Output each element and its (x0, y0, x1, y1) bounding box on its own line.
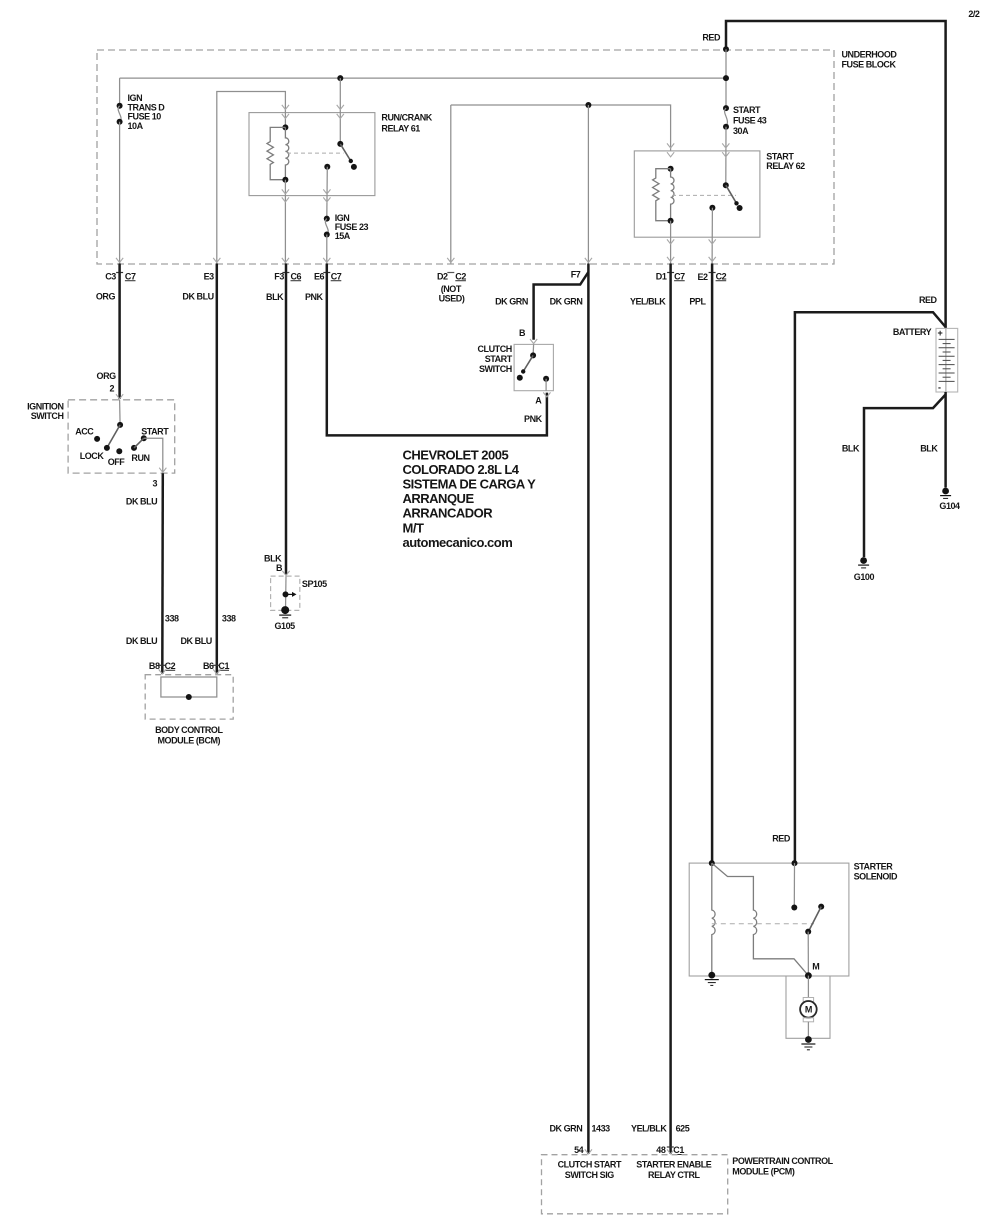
switch S1 ignition switch dashed box (68, 400, 175, 473)
svg-text:48: 48 (656, 1145, 666, 1155)
resistor relay61 (267, 127, 285, 179)
label fuse 43 (733, 105, 767, 136)
svg-text:RED: RED (772, 834, 791, 844)
wire DK BLU E3 to BCM (216, 264, 219, 675)
svg-text:BLK: BLK (842, 444, 860, 454)
svg-text:C6: C6 (291, 271, 302, 281)
svg-text:G104: G104 (939, 501, 960, 511)
solenoid coil 2 (pull-in) feed (712, 863, 809, 976)
wire D2 inside block (450, 105, 452, 264)
svg-text:3: 3 (153, 478, 158, 488)
battery BATTERY (936, 328, 958, 393)
svg-text:BLK: BLK (266, 292, 284, 302)
wire inside block from RED node to fuse 43 (725, 49, 727, 108)
underhood fuse block dashed box (97, 50, 834, 264)
svg-text:E3: E3 (204, 271, 215, 281)
relay61 switch pin top wire (339, 78, 341, 144)
label YEL/BLK 625 (631, 1124, 690, 1134)
wire BLK F3/C6 to SP105 (285, 264, 288, 575)
node relay62 coil bottom (668, 218, 674, 224)
node bus to fuse43 wire (723, 75, 729, 81)
wire main bus inside fuse block (120, 77, 726, 79)
svg-text:D1: D1 (656, 271, 667, 281)
wire DK GRN F7 to PCM (587, 264, 590, 1155)
svg-text:G105: G105 (274, 621, 295, 631)
svg-text:PNK: PNK (305, 292, 324, 302)
coil relay62 (671, 169, 674, 221)
svg-text:START: START (733, 105, 761, 115)
node motor ground (805, 1036, 812, 1043)
svg-text:CHEVROLET 2005: CHEVROLET 2005 (403, 447, 509, 462)
svg-text:ARRANQUE: ARRANQUE (403, 491, 475, 506)
svg-text:2: 2 (110, 384, 115, 394)
label fuse 23 (335, 213, 369, 241)
ground solenoid case (705, 980, 719, 986)
svg-text:YEL/BLK: YEL/BLK (630, 297, 666, 307)
svg-text:MODULE (PCM): MODULE (PCM) (732, 1166, 795, 1176)
label E2 C2 (697, 271, 726, 282)
wire DK GRN F7 branch to clutch switch B (534, 272, 589, 340)
node bus to relay61 switch (337, 75, 343, 81)
wire F7 inside block (587, 105, 589, 264)
motor housing box (786, 976, 830, 1038)
wire ORG C3/C7 to ignition switch (118, 264, 121, 400)
svg-text:C2: C2 (455, 271, 466, 281)
svg-text:C7: C7 (125, 271, 136, 281)
relay62 switch pin chevrons (722, 143, 729, 148)
svg-text:SWITCH SIG: SWITCH SIG (565, 1170, 614, 1180)
svg-text:FUSE BLOCK: FUSE BLOCK (842, 60, 897, 70)
svg-text:M: M (805, 1005, 812, 1015)
wire PPL E2/C2 to solenoid (711, 264, 714, 863)
svg-text:C3: C3 (105, 271, 116, 281)
svg-text:A: A (535, 396, 542, 406)
switch relay61 (324, 141, 357, 170)
svg-text:C7: C7 (674, 271, 685, 281)
svg-text:IGNITION: IGNITION (27, 401, 63, 411)
fuse F43 START (723, 105, 729, 185)
svg-text:DK BLU: DK BLU (126, 636, 157, 646)
svg-text:SWITCH: SWITCH (31, 411, 64, 421)
svg-text:PNK: PNK (524, 414, 543, 424)
svg-text:DK GRN: DK GRN (495, 297, 528, 307)
svg-text:RED: RED (702, 33, 721, 43)
svg-text:B6: B6 (203, 661, 214, 671)
label D1 C7 (656, 271, 685, 281)
wire RED inside solenoid (793, 863, 795, 907)
chevrons at fuse block bottom edge (116, 258, 123, 263)
node PPL entry (709, 860, 715, 866)
label BLK / B (264, 553, 283, 573)
wire BLK battery negative to G104 (944, 392, 947, 488)
relay61 coil pin top wire (284, 105, 286, 127)
svg-text:-: - (938, 383, 941, 393)
svg-text:D2: D2 (437, 271, 448, 281)
svg-text:(NOT: (NOT (441, 284, 462, 294)
node relay61 coil bottom (282, 177, 288, 183)
ground starter motor (801, 1044, 815, 1050)
wire RED battery to solenoid (795, 312, 946, 862)
svg-text:B: B (276, 563, 283, 573)
svg-text:338: 338 (222, 614, 236, 624)
label STARTER ENABLE RELAY CTRL (636, 1159, 711, 1180)
svg-text:automecanico.com: automecanico.com (403, 535, 513, 550)
svg-text:B8: B8 (149, 661, 160, 671)
svg-text:1433: 1433 (592, 1124, 611, 1134)
svg-text:RUN/CRANK: RUN/CRANK (381, 113, 432, 123)
svg-text:DK BLU: DK BLU (181, 636, 212, 646)
svg-text:START: START (766, 151, 794, 161)
svg-text:DK BLU: DK BLU (182, 292, 213, 302)
fuse F10 IGN TRANS D (117, 78, 123, 263)
resistor relay62 (653, 169, 671, 221)
label STARTER SOLENOID (854, 862, 898, 882)
svg-text:FUSE 43: FUSE 43 (733, 115, 767, 125)
wire sub-bus to relay62 coil (451, 105, 671, 151)
relay61 linkage dashed (287, 152, 344, 154)
svg-text:RELAY 62: RELAY 62 (766, 161, 805, 171)
svg-text:+: + (938, 328, 943, 338)
wire BLK battery negative to G100 (864, 395, 946, 558)
clutch switch internals (517, 344, 549, 390)
svg-text:F7: F7 (571, 270, 581, 280)
svg-text:STARTER ENABLE: STARTER ENABLE (636, 1159, 711, 1169)
wire relay61 NO contact down to fuse 23 (326, 167, 329, 219)
node relay62 coil top (668, 166, 674, 172)
svg-text:BATTERY: BATTERY (893, 327, 932, 337)
node junction at fuse block edge (723, 46, 729, 52)
svg-text:G100: G100 (854, 572, 875, 582)
svg-text:RELAY 61: RELAY 61 (381, 123, 420, 133)
svg-text:DK BLU: DK BLU (126, 497, 157, 507)
svg-text:54: 54 (574, 1145, 584, 1155)
solenoid linkage dashed (712, 923, 814, 925)
svg-text:C7: C7 (331, 271, 342, 281)
svg-text:SOLENOID: SOLENOID (854, 871, 898, 881)
svg-text:B: B (519, 328, 526, 338)
svg-text:START: START (141, 427, 169, 437)
module PCM dashed box (542, 1155, 728, 1214)
svg-text:PPL: PPL (689, 297, 706, 307)
svg-text:UNDERHOOD: UNDERHOOD (842, 50, 898, 60)
svg-text:CLUTCH: CLUTCH (478, 344, 512, 354)
label ORG 2 (97, 371, 117, 394)
svg-text:YEL/BLK: YEL/BLK (631, 1124, 667, 1134)
label F3 C6 (274, 271, 301, 281)
label B8 C2 (149, 661, 176, 671)
svg-text:15A: 15A (335, 231, 351, 241)
label BODY CONTROL MODULE (BCM) (155, 725, 223, 745)
wire RED battery feed (top) (726, 21, 946, 328)
label D2 C2 (NOT USED) (437, 271, 466, 303)
label C3 C7 (105, 271, 136, 281)
BCM internal bus (161, 677, 217, 700)
label UNDERHOOD FUSE BLOCK (842, 50, 898, 70)
label E6 C7 (314, 271, 342, 281)
ground G104 (940, 488, 951, 499)
label CLUTCH START SWITCH SIG (558, 1159, 622, 1180)
svg-text:STARTER: STARTER (854, 862, 894, 872)
switch solenoid contacts (791, 904, 824, 976)
svg-text:USED): USED) (439, 294, 465, 304)
wire E3 inside block to relay61 coil (217, 92, 286, 264)
svg-text:COLORADO 2.8L L4: COLORADO 2.8L L4 (403, 462, 520, 477)
wire PNK E6/C7 to clutch switch A (327, 264, 547, 436)
svg-text:BLK: BLK (264, 553, 282, 563)
label B6 C1 (203, 661, 229, 671)
svg-text:SWITCH: SWITCH (479, 364, 512, 374)
node RED entry (792, 860, 798, 866)
svg-text:ORG: ORG (96, 292, 116, 302)
svg-text:E6: E6 (314, 271, 325, 281)
svg-text:RED: RED (919, 295, 938, 305)
label START RELAY 62 (766, 151, 805, 171)
wire DK BLU ignition pin3 to BCM (161, 473, 164, 674)
label IGNITION SWITCH (27, 401, 63, 421)
svg-text:C1: C1 (673, 1145, 684, 1155)
svg-text:C2: C2 (716, 271, 727, 281)
svg-text:SP105: SP105 (302, 579, 327, 589)
svg-text:ACC: ACC (75, 426, 94, 436)
svg-text:MODULE (BCM): MODULE (BCM) (158, 736, 221, 746)
relay62 linkage dashed (672, 194, 736, 196)
label 3 / DK BLU (126, 478, 158, 506)
ignition switch internals (94, 400, 163, 473)
relay U62 START RELAY 62 box (634, 151, 760, 237)
label 48 C1 (656, 1145, 684, 1155)
svg-text:BODY CONTROL: BODY CONTROL (155, 725, 223, 735)
svg-text:LOCK: LOCK (80, 451, 105, 461)
solenoid box STARTER SOLENOID (689, 863, 849, 976)
svg-text:625: 625 (676, 1124, 690, 1134)
svg-text:M: M (812, 961, 819, 971)
switch S2 clutch start switch box (514, 344, 553, 390)
label RUN/CRANK RELAY 61 (381, 113, 432, 134)
title text (403, 447, 537, 550)
wire relay62 contact to E2 (711, 208, 713, 264)
svg-text:POWERTRAIN CONTROL: POWERTRAIN CONTROL (732, 1156, 833, 1166)
svg-text:ORG: ORG (97, 371, 117, 381)
wire YEL/BLK D1/C7 to PCM (669, 264, 672, 1155)
svg-text:CLUTCH START: CLUTCH START (558, 1159, 622, 1169)
svg-text:BLK: BLK (920, 444, 938, 454)
svg-text:DK GRN: DK GRN (549, 1124, 582, 1134)
node solenoid ground terminal (708, 972, 715, 979)
coil relay61 (285, 127, 288, 179)
label DK GRN 1433 (549, 1124, 610, 1134)
svg-text:E2: E2 (697, 272, 708, 282)
svg-text:RELAY CTRL: RELAY CTRL (648, 1170, 700, 1180)
label CLUTCH START SWITCH (478, 344, 513, 374)
svg-text:30A: 30A (733, 126, 749, 136)
node relay61 coil top (282, 124, 288, 130)
module BCM dashed box (145, 675, 233, 719)
svg-text:OFF: OFF (108, 457, 126, 467)
solenoid coil 1 (hold-in) (712, 863, 715, 975)
label POWERTRAIN CONTROL MODULE (PCM) (732, 1156, 833, 1177)
relay62 coil pin top chevrons (667, 143, 674, 148)
splice SP105 dashed box (271, 576, 300, 610)
svg-text:ARRANCADOR: ARRANCADOR (403, 506, 494, 521)
svg-text:M/T: M/T (403, 520, 424, 535)
svg-text:C2: C2 (165, 661, 176, 671)
relay61 coil pin bottom wire to F3 (284, 180, 286, 264)
relay U61 RUN/CRANK RELAY 61 box (249, 113, 375, 196)
node M terminal (805, 972, 812, 979)
wire relay62 coil to D1 (670, 221, 672, 264)
fuse F23 IGN (324, 216, 330, 264)
ground G105 (279, 606, 291, 618)
motor M starter motor (800, 976, 817, 1039)
svg-text:SISTEMA DE CARGA Y: SISTEMA DE CARGA Y (403, 476, 537, 491)
svg-text:2/2: 2/2 (968, 9, 980, 19)
label fuse 10 (128, 93, 166, 131)
node F7 tap on sub-bus (585, 102, 591, 108)
splice internals (283, 576, 297, 610)
svg-text:338: 338 (165, 614, 179, 624)
svg-text:START: START (485, 354, 513, 364)
svg-text:RUN: RUN (131, 453, 149, 463)
svg-text:DK GRN: DK GRN (550, 297, 583, 307)
switch relay62 (709, 182, 742, 211)
ground G100 (858, 557, 869, 568)
svg-text:10A: 10A (128, 121, 144, 131)
